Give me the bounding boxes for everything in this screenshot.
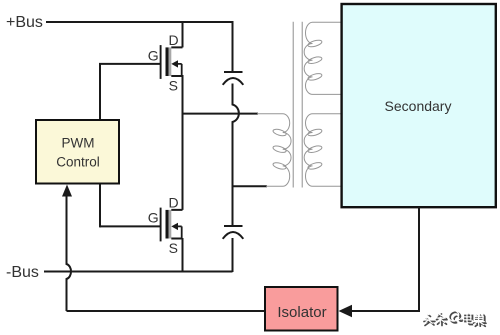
wire -Bus rail [44,271,233,273]
svg-text:D: D [169,32,179,48]
svg-text:Control: Control [56,155,100,170]
transformer secondary winding lower [304,114,341,187]
wire capacitor midpoint to transformer primary bottom [232,185,268,187]
transistor Q1 upper MOSFET [148,32,183,93]
wire Q2 source to -Bus [182,238,184,272]
svg-text:G: G [148,210,159,226]
Secondary box [342,4,496,207]
wire feedback vertical with hop over -Bus and arrow into PWM [67,195,72,311]
svg-text:PWM: PWM [62,135,95,150]
svg-text:+Bus: +Bus [6,14,43,31]
wire capacitor branch lower [232,238,234,272]
wire capacitor branch middle with hop over primary wire [233,84,239,227]
transformer secondary winding upper [304,22,341,94]
capacitor C1 [223,72,244,85]
svg-text:-Bus: -Bus [6,264,39,281]
wire capacitor branch upper [232,21,234,72]
svg-text:S: S [169,78,178,94]
transformer primary winding [257,114,291,187]
wire PWM to Q1 gate [99,63,101,121]
wire Q1 drain to +Bus [182,21,184,47]
wire +Bus rail [46,21,233,23]
wire Secondary to isolator [352,207,419,311]
watermark 头条@电巢 [422,311,486,327]
svg-text:Secondary: Secondary [385,98,452,114]
svg-text:G: G [148,47,159,63]
wire Q1 gate lead [99,63,160,65]
PWM Control box [36,120,119,184]
svg-text:Isolator: Isolator [277,304,326,321]
svg-text:S: S [169,240,178,256]
arrow into isolator [339,305,353,317]
wire Q2 gate lead [100,225,160,227]
wire PWM to Q2 gate [99,183,101,227]
capacitor C2 [223,226,244,239]
Isolator box [265,287,338,331]
transformer core [293,22,302,188]
wire midpoint to transformer primary top [183,113,259,115]
transistor Q2 lower MOSFET [148,194,183,255]
svg-text:D: D [169,194,179,210]
wire feedback horizontal from isolator [67,310,266,312]
wire Q1 source to Q2 drain [182,75,184,210]
